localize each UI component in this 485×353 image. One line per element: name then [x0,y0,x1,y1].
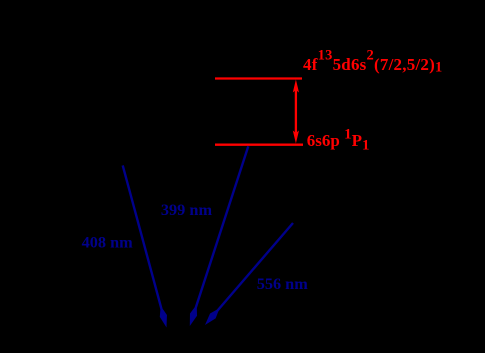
svg-text:556 nm: 556 nm [257,274,309,293]
svg-text:408 nm: 408 nm [82,233,134,252]
arrow 556 nm [216,223,294,313]
arrow 399 nm [195,146,249,310]
svg-text:6s6p 1P1: 6s6p 1P1 [307,126,370,153]
svg-text:399 nm: 399 nm [161,200,213,219]
red double-headed arrow between levels [293,80,299,144]
lower level line 6s6p 1P1 [215,144,303,146]
upper level line 4f13 5d6s2 [215,77,302,79]
arrow 408 nm [123,165,162,311]
blue transition arrows [123,146,293,328]
